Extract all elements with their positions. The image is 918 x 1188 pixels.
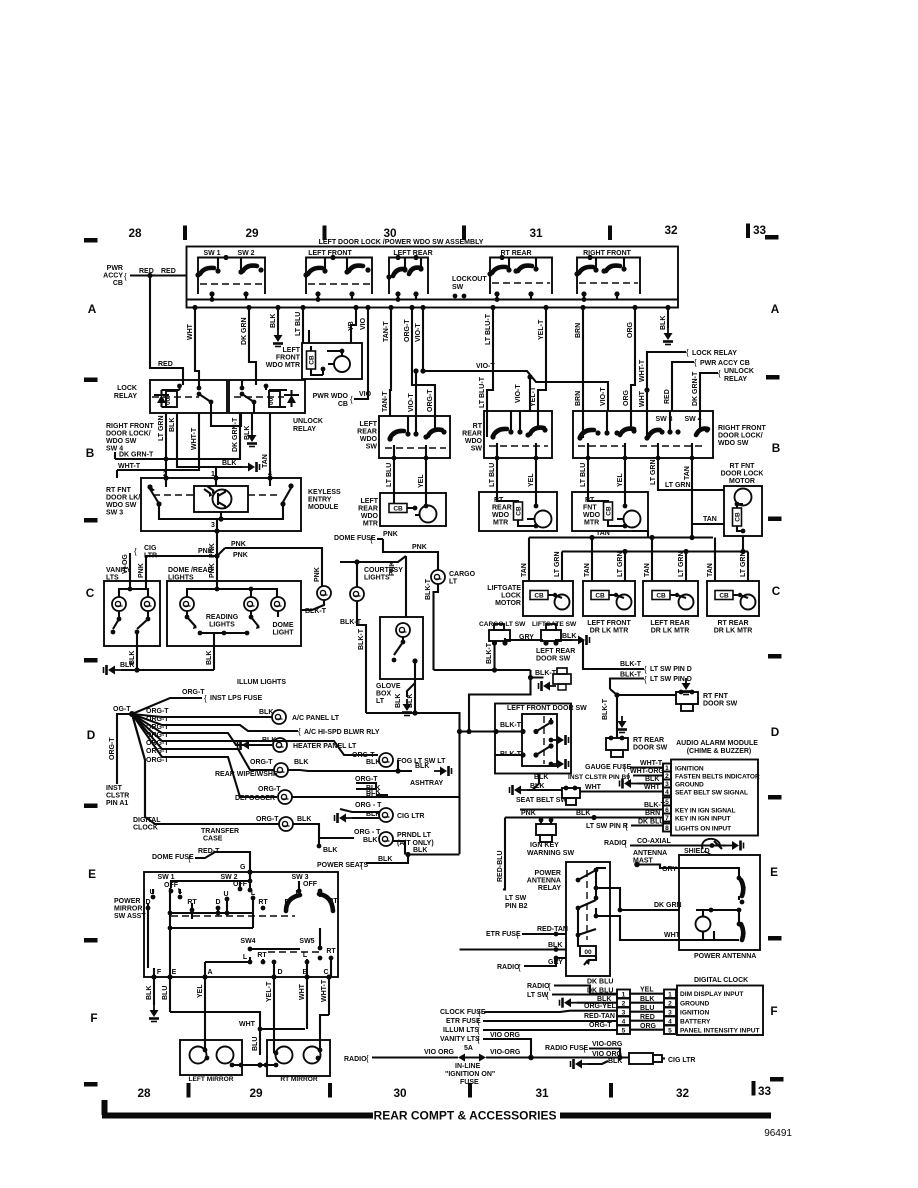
RT FNT DOOR SW xyxy=(681,678,691,695)
svg-text:LOCK RELAY: LOCK RELAY xyxy=(692,350,737,357)
svg-text:DOME /READ: DOME /READ xyxy=(168,567,213,574)
svg-text:TAN-T: TAN-T xyxy=(382,391,389,412)
svg-text:BLK: BLK xyxy=(576,810,590,817)
svg-text:5: 5 xyxy=(622,1028,626,1035)
svg-text:SW5: SW5 xyxy=(299,938,314,945)
svg-text:BLK: BLK xyxy=(413,847,427,854)
svg-text:HEATER PANEL LT: HEATER PANEL LT xyxy=(293,743,357,750)
svg-text:7: 7 xyxy=(665,815,669,822)
svg-text:BLK: BLK xyxy=(395,694,402,708)
svg-text:"IGNITION ON": "IGNITION ON" xyxy=(445,1071,495,1078)
svg-text:WHT-T: WHT-T xyxy=(191,427,198,450)
svg-text:RT REAR: RT REAR xyxy=(500,250,531,257)
svg-text:ORG-T: ORG-T xyxy=(146,740,169,747)
svg-text:{: { xyxy=(370,535,373,544)
svg-text:{: { xyxy=(625,822,628,831)
SW1/SW2 dashed xyxy=(200,283,263,285)
svg-text:PNK: PNK xyxy=(314,567,321,582)
svg-text:BLK: BLK xyxy=(323,847,337,854)
vanity lamps xyxy=(112,597,126,611)
LEFT REAR WDO MTR box xyxy=(380,493,446,526)
svg-text:CB: CB xyxy=(338,401,348,408)
sw4/sw5 contacts xyxy=(248,947,253,952)
svg-text:VIO-ORG: VIO-ORG xyxy=(592,1041,623,1048)
svg-text:{: { xyxy=(134,547,137,556)
svg-text:DOOR SW: DOOR SW xyxy=(703,701,738,708)
RIGHT FRONT sub box xyxy=(577,258,640,295)
svg-text:BLK-T: BLK-T xyxy=(305,608,327,615)
svg-text:COURTESY: COURTESY xyxy=(364,567,403,574)
svg-text:DOOR LK/: DOOR LK/ xyxy=(106,495,140,502)
wire YEL drop xyxy=(351,308,356,344)
GLOVE BOX LT box xyxy=(380,617,423,679)
LEFT FRONT stubs xyxy=(318,258,352,300)
svg-text:ORG-T: ORG-T xyxy=(109,737,116,760)
svg-text:TAN: TAN xyxy=(521,563,528,577)
bottom pins xyxy=(151,974,156,979)
svg-text:GRY: GRY xyxy=(519,634,534,641)
svg-text:YEL-T: YEL-T xyxy=(538,319,545,340)
svg-text:DOOR SW: DOOR SW xyxy=(536,656,571,663)
svg-text:SEAT BELT SW SIGNAL: SEAT BELT SW SIGNAL xyxy=(675,790,748,797)
svg-text:REAR: REAR xyxy=(357,429,377,436)
keyless box xyxy=(141,478,301,531)
cig lighter symbol xyxy=(629,1053,653,1064)
svg-text:DK GRN: DK GRN xyxy=(654,902,682,909)
seat belt ground xyxy=(527,789,562,791)
svg-text:SW: SW xyxy=(366,444,378,451)
svg-text:RT MIRROR: RT MIRROR xyxy=(280,1076,318,1083)
dome wiring xyxy=(187,581,278,633)
svg-text:RED: RED xyxy=(640,1014,655,1021)
svg-text:LTR: LTR xyxy=(144,553,157,560)
PNK / ign key wire pin7 xyxy=(505,816,663,818)
svg-text:F: F xyxy=(157,969,162,976)
svg-text:BLK-T: BLK-T xyxy=(644,802,666,809)
svg-text:D: D xyxy=(277,969,282,976)
svg-text:5A: 5A xyxy=(464,1045,473,1052)
svg-text:{: { xyxy=(124,272,127,281)
svg-text:LT GRN: LT GRN xyxy=(678,551,685,577)
wire BLK-T lower xyxy=(610,679,644,690)
svg-text:YB: YB xyxy=(348,321,355,331)
svg-text:33: 33 xyxy=(758,1084,772,1098)
svg-text:DEFOGGER: DEFOGGER xyxy=(235,795,275,802)
wire RED drop to relays xyxy=(150,276,183,381)
svg-text:BOX: BOX xyxy=(376,691,392,698)
fan wire 6 DEFOGGER xyxy=(132,714,277,797)
LT GRN bus xyxy=(529,536,748,581)
svg-text:LIGHT: LIGHT xyxy=(273,630,295,637)
svg-text:PNK: PNK xyxy=(198,548,213,555)
svg-text:WHT: WHT xyxy=(299,983,306,1000)
svg-text:BLK-T: BLK-T xyxy=(486,642,493,664)
upper ground xyxy=(550,718,552,722)
tick xyxy=(462,226,466,241)
svg-text:BLK-T: BLK-T xyxy=(602,698,609,720)
bus junction dots on inner bus xyxy=(210,297,215,302)
wire down to lower bus xyxy=(469,678,531,732)
ground xyxy=(273,330,283,347)
svg-text:ORG: ORG xyxy=(640,1023,657,1030)
svg-text:BLK: BLK xyxy=(206,651,213,665)
svg-text:RT: RT xyxy=(326,948,336,955)
SW1/SW2 contacts xyxy=(195,272,200,277)
fan wire 2 A/C HI-SPD BLWR RLY xyxy=(132,714,298,731)
SW1/SW2 sub box xyxy=(198,258,265,295)
svg-text:BLU: BLU xyxy=(162,986,169,1000)
svg-text:C: C xyxy=(772,584,781,598)
svg-text:BLK: BLK xyxy=(645,776,659,783)
tick xyxy=(328,1083,332,1098)
svg-text:RED-TAN: RED-TAN xyxy=(584,1013,615,1020)
fuse symbol xyxy=(458,1054,465,1062)
svg-text:DOOR SW: DOOR SW xyxy=(633,745,668,752)
wire from rear wipe lamp right to ashtray ground xyxy=(288,760,412,771)
svg-text:A: A xyxy=(88,302,97,316)
svg-text:1: 1 xyxy=(668,992,672,999)
wires below relays xyxy=(115,413,270,478)
lock relay coil xyxy=(166,391,177,407)
svg-text:FUSE: FUSE xyxy=(460,1079,479,1086)
svg-text:LOCK: LOCK xyxy=(117,385,137,392)
node on RED wire xyxy=(147,273,152,278)
svg-text:{: { xyxy=(686,348,689,357)
wire BLK-T upper xyxy=(583,640,644,669)
outer box xyxy=(495,704,571,774)
wire BLK drop to ground right xyxy=(667,308,669,329)
ground wire pin3 xyxy=(620,779,638,789)
lock relay diode xyxy=(157,395,166,403)
svg-text:F: F xyxy=(770,1004,777,1018)
keyless dashed xyxy=(153,494,280,496)
svg-text:WDO SW: WDO SW xyxy=(718,440,749,447)
svg-text:KEYLESS: KEYLESS xyxy=(308,489,341,496)
fan wire 3 HEATER PANEL LT xyxy=(132,714,272,745)
bottom bar right segment xyxy=(560,1113,771,1119)
svg-text:GROUND: GROUND xyxy=(680,1001,710,1008)
svg-text:G: G xyxy=(240,864,246,871)
svg-text:BLK: BLK xyxy=(146,986,153,1000)
svg-text:B: B xyxy=(772,441,781,455)
relay internals xyxy=(586,870,588,940)
svg-text:BLK: BLK xyxy=(129,651,136,665)
svg-text:{: { xyxy=(623,763,626,772)
wire TAN-T drop xyxy=(390,308,391,417)
svg-text:LEFT: LEFT xyxy=(361,498,379,505)
lock relay dashed xyxy=(152,396,199,398)
svg-text:RT REAR: RT REAR xyxy=(717,620,748,627)
RIGHT FRONT stubs xyxy=(584,258,624,300)
svg-text:LOCK: LOCK xyxy=(501,593,521,600)
svg-text:RELAY: RELAY xyxy=(114,393,137,400)
lower BLK-T bus to left front door sw xyxy=(415,713,523,854)
svg-text:GROUND: GROUND xyxy=(675,782,704,789)
svg-text:DK GRN: DK GRN xyxy=(241,317,248,345)
svg-text:GRY: GRY xyxy=(662,866,677,873)
svg-text:LEFT: LEFT xyxy=(283,347,301,354)
svg-text:{: { xyxy=(718,369,721,378)
svg-text:L: L xyxy=(243,954,248,961)
svg-text:DOME: DOME xyxy=(273,622,294,629)
svg-text:{: { xyxy=(366,1054,369,1063)
svg-text:4: 4 xyxy=(665,789,669,796)
svg-text:3: 3 xyxy=(668,1010,672,1017)
svg-text:VIO-T: VIO-T xyxy=(408,393,415,412)
antenna internals xyxy=(696,917,711,932)
TAN bus xyxy=(529,524,713,538)
svg-text:DK BLU: DK BLU xyxy=(587,988,613,995)
svg-text:RADIO: RADIO xyxy=(527,983,550,990)
svg-text:SW 3: SW 3 xyxy=(106,510,123,517)
svg-text:WHT-T: WHT-T xyxy=(640,760,663,767)
svg-text:ORG-T: ORG-T xyxy=(256,816,279,823)
RT REAR DR LK MTR box xyxy=(707,581,759,616)
svg-text:WHT-T: WHT-T xyxy=(321,979,328,1002)
svg-text:TAN: TAN xyxy=(262,454,269,468)
svg-text:UNLOCK: UNLOCK xyxy=(293,418,323,425)
svg-text:LT GRN: LT GRN xyxy=(617,551,624,577)
svg-text:CO-AXIAL: CO-AXIAL xyxy=(637,838,672,845)
wire YEL-T drop xyxy=(538,308,546,412)
LEFT REAR WDO SW box xyxy=(379,416,450,458)
wires rt rear xyxy=(497,458,536,492)
svg-text:VANITY LTS: VANITY LTS xyxy=(440,1036,480,1043)
registration dash bottom right xyxy=(770,1077,784,1082)
svg-text:96491: 96491 xyxy=(764,1128,792,1139)
svg-text:BLK-T: BLK-T xyxy=(358,628,365,650)
wire VIO-T drop xyxy=(422,308,424,372)
svg-text:BLU: BLU xyxy=(640,1005,654,1012)
svg-text:DOOR LOCK/: DOOR LOCK/ xyxy=(718,433,763,440)
svg-text:BLK: BLK xyxy=(363,837,377,844)
svg-text:LIFTGATE: LIFTGATE xyxy=(487,585,521,592)
svg-text:A/C PANEL LT: A/C PANEL LT xyxy=(292,715,340,722)
svg-text:RED-BLU: RED-BLU xyxy=(497,851,504,883)
svg-text:BLU: BLU xyxy=(252,1037,259,1051)
svg-text:IGN KEY: IGN KEY xyxy=(530,842,559,849)
cargo lt sw symbol xyxy=(489,630,510,641)
svg-text:DOOR LOCK/: DOOR LOCK/ xyxy=(106,431,151,438)
svg-text:DK GRN-T: DK GRN-T xyxy=(692,371,699,406)
svg-text:PNK: PNK xyxy=(383,531,398,538)
lower contact dots xyxy=(248,960,253,965)
left rear door jamb switch xyxy=(553,668,571,690)
svg-text:LEFT FRONT: LEFT FRONT xyxy=(587,620,631,627)
svg-text:{: { xyxy=(624,839,627,848)
svg-text:30: 30 xyxy=(393,1086,407,1100)
GRY wire to liftgate sw xyxy=(505,638,543,641)
BLK ground to cig xyxy=(588,1061,608,1064)
svg-text:WDO: WDO xyxy=(583,512,601,519)
unlock relay coil xyxy=(269,391,280,407)
svg-text:{: { xyxy=(204,694,207,703)
LEFT FRONT WDO MTR box xyxy=(302,343,362,379)
svg-text:LEFT REAR: LEFT REAR xyxy=(650,620,689,627)
PNK branch right to courtesy xyxy=(225,548,322,586)
LOCK RELAY box xyxy=(150,380,227,413)
tick xyxy=(323,226,327,241)
svg-text:WHT-ORG: WHT-ORG xyxy=(630,768,664,775)
svg-text:REAR: REAR xyxy=(462,431,482,438)
svg-text:B: B xyxy=(86,446,95,460)
svg-text:(CHIME & BUZZER): (CHIME & BUZZER) xyxy=(687,748,752,755)
svg-text:LT GRN: LT GRN xyxy=(650,459,657,485)
svg-text:MTR: MTR xyxy=(584,520,599,527)
DK GRN-T wire xyxy=(115,452,117,459)
wire to RT FNT DOOR SW xyxy=(610,689,676,730)
svg-text:DOOR LOCK: DOOR LOCK xyxy=(721,471,764,478)
svg-text:MOTOR: MOTOR xyxy=(729,478,755,485)
RT MIRROR box xyxy=(267,1040,330,1076)
svg-text:LEFT DOOR LOCK /POWER WDO SW A: LEFT DOOR LOCK /POWER WDO SW ASSEMBLY xyxy=(319,239,484,246)
svg-text:{: { xyxy=(694,358,697,367)
fan wire 4 FOG LT SW LT xyxy=(132,714,378,755)
bottom bar corner xyxy=(102,1100,108,1115)
wire WHT drop xyxy=(195,308,199,381)
INST LPS FUSE xyxy=(132,698,202,714)
wire RED to assembly xyxy=(130,274,187,276)
clock feed wire xyxy=(132,714,145,815)
svg-text:SW: SW xyxy=(452,284,464,291)
svg-text:WDO MTR: WDO MTR xyxy=(266,362,300,369)
registration dash top left xyxy=(84,238,98,243)
unlock relay dashed xyxy=(234,396,284,398)
svg-text:LT BLU: LT BLU xyxy=(386,463,393,487)
svg-text:WDO: WDO xyxy=(465,438,483,445)
arcs xyxy=(390,431,404,438)
svg-text:{: { xyxy=(360,861,363,870)
svg-text:MODULE: MODULE xyxy=(308,504,339,511)
svg-text:BLK: BLK xyxy=(270,314,277,328)
svg-text:BLK: BLK xyxy=(608,1058,622,1065)
svg-text:ORG-T: ORG-T xyxy=(352,752,375,759)
SW1 switch arc xyxy=(200,268,214,274)
GRY wire from mast to relay xyxy=(596,867,606,869)
svg-text:BLK: BLK xyxy=(415,763,429,770)
svg-text:E: E xyxy=(88,867,96,881)
registration dash top right xyxy=(765,235,779,240)
svg-text:{: { xyxy=(516,930,519,939)
svg-text:{: { xyxy=(298,727,301,736)
LEFT FRONT contacts xyxy=(303,272,308,277)
svg-text:BLK: BLK xyxy=(222,460,236,467)
PNK wire from dome fuse to cargo lamp xyxy=(340,539,438,617)
svg-text:LEFT FRONT DOOR SW: LEFT FRONT DOOR SW xyxy=(507,705,587,712)
svg-text:{: { xyxy=(477,1035,480,1044)
svg-text:KEY IN IGN SIGNAL: KEY IN IGN SIGNAL xyxy=(675,808,736,815)
svg-text:VIO-T: VIO-T xyxy=(600,387,607,406)
courtesy lamp 1 xyxy=(317,586,331,600)
svg-text:ASHTRAY: ASHTRAY xyxy=(410,780,444,787)
ORG-T vertical feed xyxy=(117,714,132,784)
SW1 wire stubs xyxy=(212,258,246,300)
svg-text:LT SW: LT SW xyxy=(505,895,527,902)
svg-text:RELAY: RELAY xyxy=(293,426,316,433)
BLK wire xyxy=(460,948,567,950)
svg-text:ORG: ORG xyxy=(627,322,634,339)
svg-text:{: { xyxy=(644,665,647,674)
svg-text:BLK: BLK xyxy=(660,316,667,330)
svg-text:IGNITION: IGNITION xyxy=(675,766,704,773)
LEFT REAR stubs xyxy=(398,258,421,300)
svg-text:32: 32 xyxy=(676,1086,690,1100)
sw2 contacts xyxy=(216,906,221,911)
svg-text:RADIO: RADIO xyxy=(344,1056,367,1063)
svg-text:MTR: MTR xyxy=(363,521,378,528)
svg-text:RED-TAN: RED-TAN xyxy=(537,926,568,933)
svg-text:FRONT: FRONT xyxy=(276,355,301,362)
svg-text:29: 29 xyxy=(249,1086,263,1100)
svg-text:TAN: TAN xyxy=(584,563,591,577)
svg-text:KEY IN IGN INPUT: KEY IN IGN INPUT xyxy=(675,816,731,823)
tick xyxy=(746,224,750,239)
svg-text:RT REAR: RT REAR xyxy=(633,737,664,744)
svg-text:31: 31 xyxy=(529,226,543,240)
svg-text:LIGHTS: LIGHTS xyxy=(364,575,390,582)
svg-text:ORG-T: ORG-T xyxy=(404,319,411,342)
svg-text:ILLUM LTS: ILLUM LTS xyxy=(443,1027,479,1034)
svg-text:PNK: PNK xyxy=(231,541,246,548)
svg-text:ORG - T: ORG - T xyxy=(355,802,382,809)
svg-text:BLK: BLK xyxy=(562,633,576,640)
wire DK GRN drop xyxy=(249,308,256,381)
svg-text:VIO: VIO xyxy=(359,391,372,398)
svg-text:FNT: FNT xyxy=(583,505,597,512)
svg-text:CASE: CASE xyxy=(203,836,223,843)
LEFT REAR contacts xyxy=(386,274,391,279)
svg-text:LT: LT xyxy=(376,698,385,705)
wire PNK from keyless pin3 xyxy=(216,531,218,581)
svg-text:READING: READING xyxy=(206,614,239,621)
svg-text:4: 4 xyxy=(622,1019,626,1026)
svg-text:PWR WDO: PWR WDO xyxy=(313,393,349,400)
svg-text:LT BLU: LT BLU xyxy=(295,312,302,336)
svg-text:REAR: REAR xyxy=(492,505,512,512)
wire VIO drop to PWR WDO CB xyxy=(354,308,368,400)
svg-text:PWR ACCY CB: PWR ACCY CB xyxy=(700,360,750,367)
svg-text:RED-T: RED-T xyxy=(198,848,220,855)
svg-text:LT SW PIN D: LT SW PIN D xyxy=(650,666,692,673)
LEFT FRONT dashed xyxy=(308,283,370,285)
svg-text:PANEL INTENSITY INPUT: PANEL INTENSITY INPUT xyxy=(680,1028,760,1035)
svg-text:1: 1 xyxy=(622,992,626,999)
svg-text:E: E xyxy=(172,969,177,976)
svg-text:WHT-T: WHT-T xyxy=(118,463,141,470)
svg-text:YEL-T: YEL-T xyxy=(530,386,537,407)
svg-text:{: { xyxy=(350,395,353,404)
svg-text:LEFT REAR: LEFT REAR xyxy=(536,648,575,655)
svg-text:RT: RT xyxy=(257,952,267,959)
svg-text:{: { xyxy=(477,1026,480,1035)
svg-text:WHT: WHT xyxy=(585,784,602,791)
unlock relay internals xyxy=(242,380,287,413)
PRNDL LT xyxy=(319,837,354,839)
svg-text:PIN B2: PIN B2 xyxy=(505,903,528,910)
svg-text:TAN-T: TAN-T xyxy=(383,321,390,342)
wire ORG-T drop xyxy=(412,308,435,417)
sw3 arcs xyxy=(286,895,300,911)
svg-text:INST CLSTR PIN B9: INST CLSTR PIN B9 xyxy=(568,774,630,781)
svg-text:ANTENNA: ANTENNA xyxy=(527,878,561,885)
svg-text:MOTOR: MOTOR xyxy=(495,600,521,607)
svg-text:VIO ORG: VIO ORG xyxy=(490,1032,521,1039)
svg-text:ETR FUSE: ETR FUSE xyxy=(446,1018,481,1025)
RIGHT FRONT contacts xyxy=(574,271,579,276)
svg-text:SW ASST: SW ASST xyxy=(114,913,146,920)
svg-text:RT FNT: RT FNT xyxy=(106,487,132,494)
svg-text:RT: RT xyxy=(258,899,268,906)
